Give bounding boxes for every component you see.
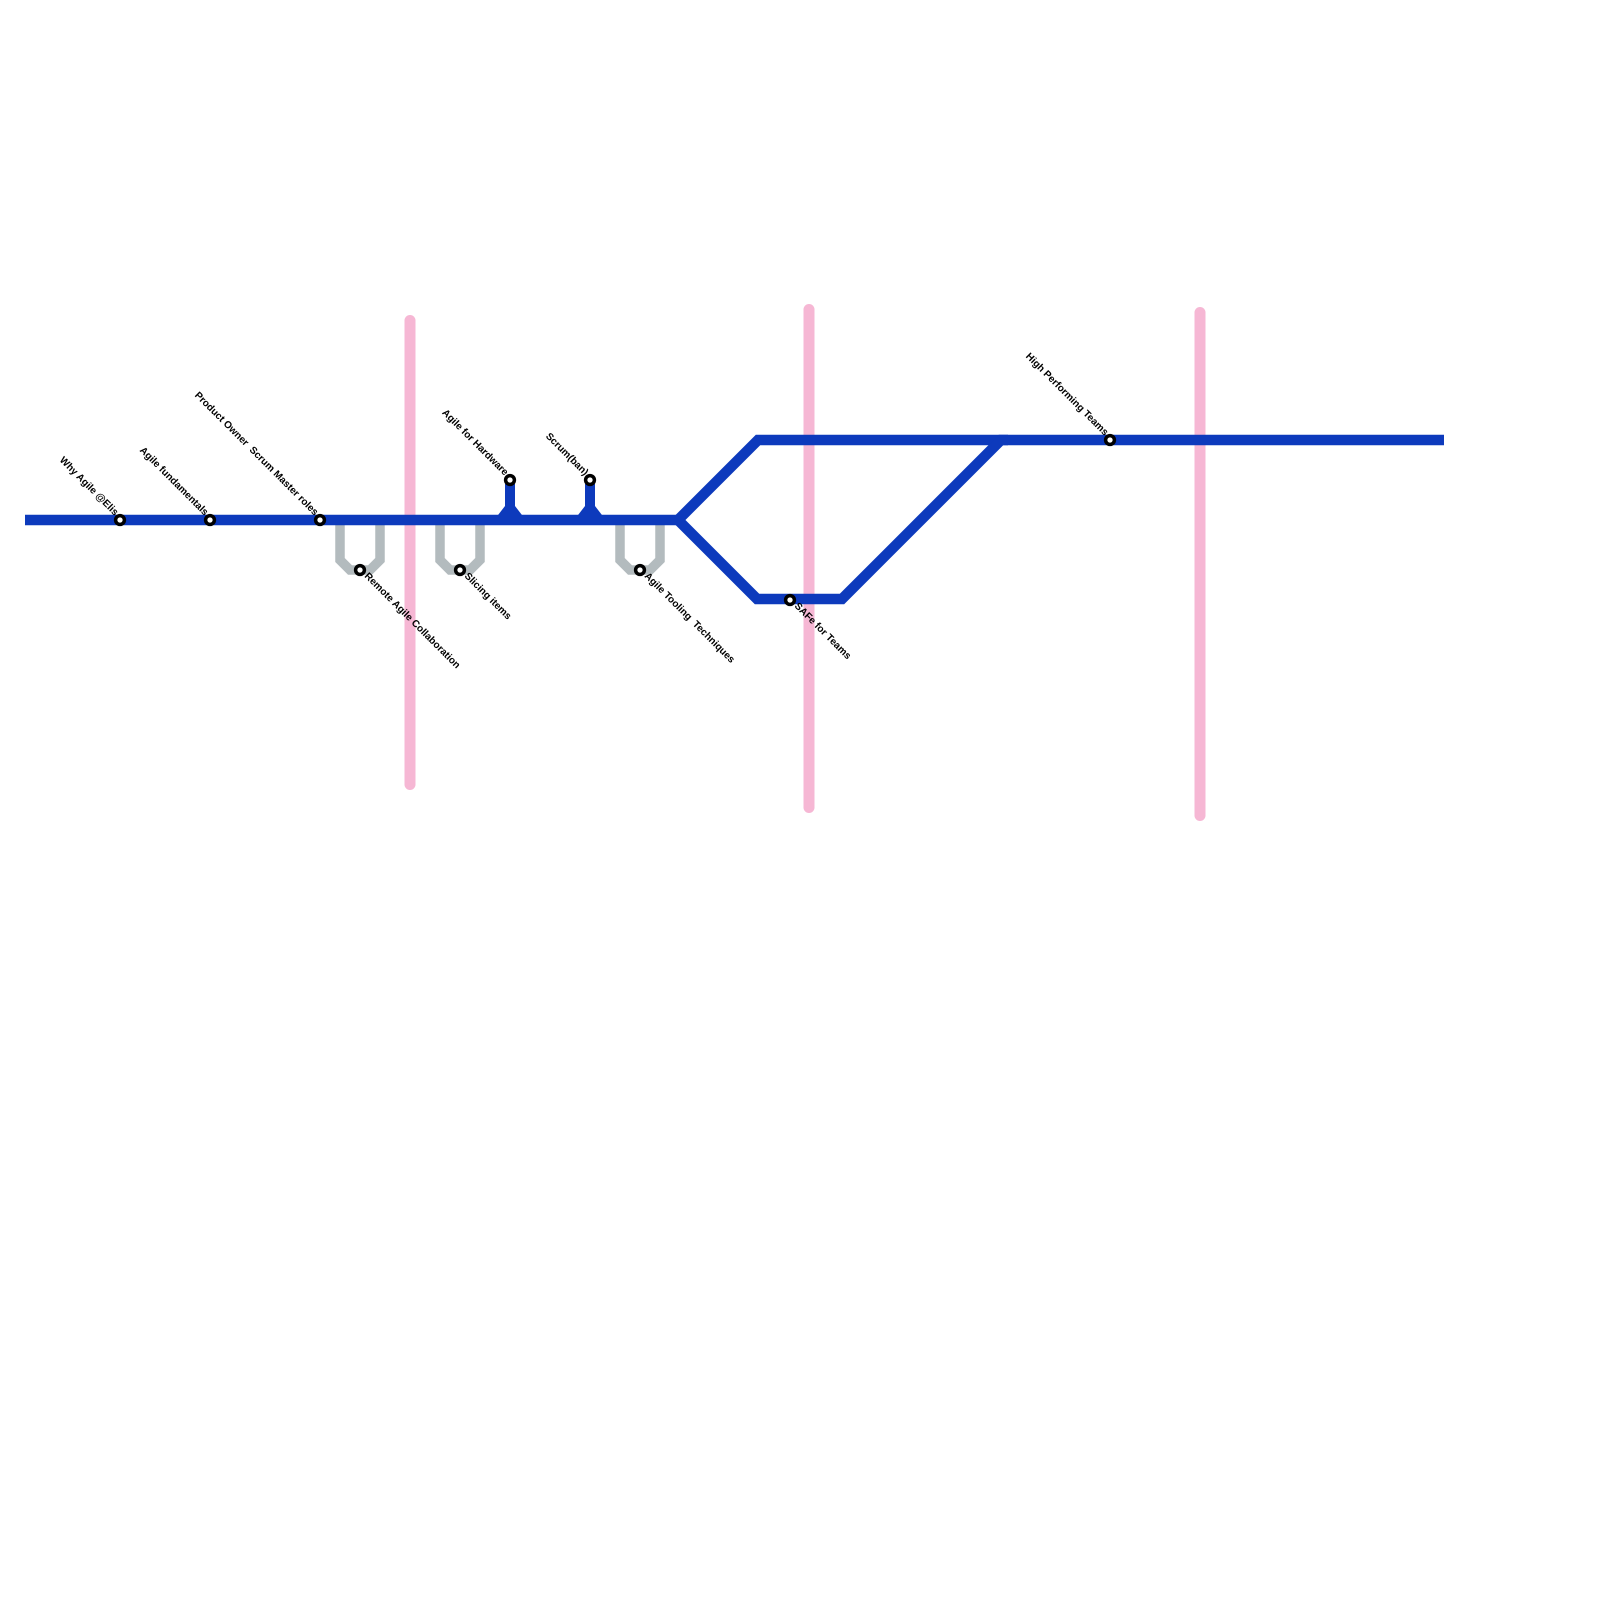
gray loop U3 (Agile Tooling Techniques) [620,518,660,570]
station Product Owner Scrum Master roles [316,516,325,525]
pink interchange line 1 [405,321,416,785]
station Scrum(ban) [586,476,595,485]
station Why Agile @Elis [116,516,125,525]
station SAFe for Teams [786,596,795,605]
pink interchange line 3 [1195,313,1206,816]
station High Performing Teams [1106,436,1115,445]
station Slicing items [456,566,465,575]
blue stub Agile for Hardware [505,484,515,518]
station Agile fundamentals [206,516,215,525]
blue main line [25,515,678,526]
station Remote Agile Collaboration [356,566,365,575]
gray loop U1 (Remote Agile Collaboration) [340,518,380,570]
blue upper branch [678,440,1444,520]
station Agile Tooling Techniques [636,566,645,575]
gray loop U2 (Slicing items) [440,518,480,570]
station Agile for Hardware [506,476,515,485]
blue stub Scrum(ban) [585,484,595,518]
pink interchange line 2 [804,310,815,808]
blue lower branch with loop back [678,440,1008,599]
